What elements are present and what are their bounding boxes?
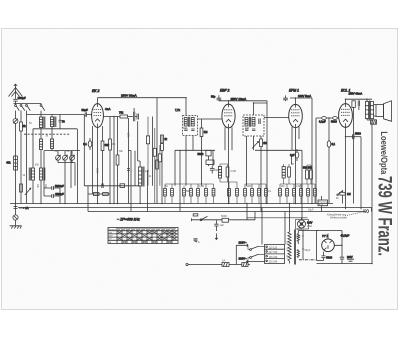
coil L7 IF tall [139, 167, 145, 187]
wire mains lower lead [246, 261, 265, 263]
resistor R8 [93, 193, 99, 196]
ballast bars [347, 256, 354, 261]
potentiometer P2 arrow [252, 142, 259, 149]
svg-text:739 W Franz.: 739 W Franz. [373, 176, 395, 256]
wire selector stubs [248, 245, 265, 261]
mains plug pins [247, 244, 248, 263]
svg-text:220V~: 220V~ [239, 241, 248, 245]
coil L1 [39, 117, 45, 129]
capacitor C20 [352, 100, 360, 203]
svg-text:1A: 1A [25, 206, 29, 210]
wire x147 drop [147, 170, 149, 212]
svg-text:100V 5mA: 100V 5mA [298, 94, 311, 98]
svg-text:1M: 1M [347, 192, 351, 196]
svg-text:468: 468 [183, 127, 188, 130]
wire x162 upper [161, 135, 163, 144]
svg-text:Bereich: Bereich [109, 228, 117, 231]
wire anode rail 4 [346, 99, 373, 104]
svg-text:600: 600 [35, 164, 40, 167]
wire lamp rail [247, 217, 308, 219]
wire x135 drop [134, 151, 136, 186]
wire x180 drop [179, 150, 181, 211]
resistor R7 [120, 184, 125, 188]
wire x312 drop [311, 98, 313, 204]
svg-text:4mA: 4mA [105, 107, 111, 111]
wire resistor bank drops [165, 182, 315, 204]
wire rail 150.3 right [255, 149, 302, 151]
trimmer pot P1 [13, 119, 18, 124]
wire C23 [328, 118, 330, 204]
wire x114 drop [113, 117, 115, 204]
chassis ground [10, 220, 22, 229]
wire x321 drop [321, 196, 323, 212]
resistor R12 [161, 144, 164, 151]
wire osc coil drops [33, 180, 41, 204]
coil L11 [252, 118, 255, 127]
resistor R6 [116, 155, 119, 165]
resistor R9 [103, 193, 109, 196]
resistor bank row above bus [164, 189, 317, 197]
tube V2 [222, 104, 235, 128]
fuse F1 [14, 204, 18, 215]
dial lamp [298, 218, 306, 228]
terminal arrow [215, 234, 218, 240]
svg-text:5000: 5000 [221, 214, 227, 218]
wire S2 drop [342, 190, 344, 203]
wire filter drop [134, 108, 140, 167]
resistor R25 mains b [242, 263, 248, 267]
resistor R20 [156, 160, 159, 169]
rectifier loop box [317, 231, 343, 261]
capacitor C17 [283, 98, 288, 100]
switch S1c [26, 105, 31, 111]
resistor R13 1M [260, 139, 267, 147]
svg-text:40µF: 40µF [295, 236, 301, 239]
svg-text:7,7k: 7,7k [175, 108, 181, 112]
wire bus hook right [371, 208, 373, 212]
capacitor C23 0,1 [327, 141, 335, 147]
capacitor C10 [191, 129, 194, 131]
svg-text:110 125: 110 125 [269, 246, 278, 249]
wire tone switch line [192, 219, 256, 221]
svg-text:150V 30mA: 150V 30mA [121, 94, 137, 98]
wire tone rail [346, 136, 362, 138]
capacitor C22 paper [331, 117, 337, 124]
IF transformer IFT2 shield box [243, 115, 264, 136]
wire anode rail 2 [219, 95, 267, 104]
wire mid rail 185.8 [84, 185, 140, 187]
pickup terminal TA1 [193, 214, 198, 216]
resistor R5 [109, 139, 112, 150]
svg-text:Loewe/Opta: Loewe/Opta [379, 131, 389, 175]
terminal mains [186, 263, 188, 265]
resistor R2 [6, 156, 17, 170]
svg-text:T.A.: T.A. [196, 241, 200, 244]
capacitor C19 1uF [290, 149, 299, 161]
switch S3 [192, 216, 208, 221]
svg-text:5000pF: 5000pF [55, 184, 64, 188]
wire V2 pins [225, 127, 232, 203]
resistor R21 [146, 136, 149, 144]
capacitor C28 [126, 133, 130, 171]
capacitor C12 [198, 150, 212, 156]
resistor R11 [161, 135, 168, 143]
wire rail C [33, 128, 77, 130]
bus line 2 [18, 207, 372, 209]
svg-text:5000: 5000 [326, 256, 332, 260]
TR1 secondary heater [297, 250, 299, 258]
trimmer T2 [63, 155, 68, 160]
TR1 tap labels [285, 241, 287, 259]
capacitor C25 [221, 214, 229, 222]
wire bank2 stubs [33, 129, 52, 168]
bus line 3 [88, 211, 366, 213]
wire rectifier output [334, 239, 342, 257]
capacitor C21 paper [319, 117, 326, 124]
coil L4 [50, 139, 53, 149]
capacitor C4 [44, 184, 64, 190]
node a [113, 116, 114, 117]
capacitor C8 [102, 184, 103, 189]
svg-text:2M: 2M [281, 185, 284, 188]
output transformer TR2 [365, 101, 373, 120]
wire band-switch top rail [14, 103, 42, 105]
coil L13 [282, 167, 285, 179]
IF transformer IFT1 shield box [183, 116, 198, 136]
resistor R18 [340, 192, 351, 196]
coil L2 [50, 117, 56, 128]
capacitor C18 [210, 166, 215, 174]
coil L5 oscillator [29, 168, 34, 181]
wire V4 cathode drop [345, 127, 347, 209]
svg-text:1µF: 1µF [219, 223, 224, 227]
wire x84 drop [83, 115, 85, 186]
wire V1 cathode drops [93, 126, 103, 204]
wire anode supply rail [98, 98, 187, 104]
wire C4 C5 drops [44, 151, 60, 204]
wire rail 150.3 [175, 149, 215, 151]
wire vertical x21 [20, 111, 22, 204]
wire x152 drop [152, 117, 154, 186]
wire R4 drop [102, 151, 104, 186]
svg-text:500pF: 500pF [18, 96, 26, 100]
table X marks [117, 231, 176, 243]
wire TR1 HT to rectifier [298, 231, 318, 245]
resistor R16 [306, 170, 309, 179]
svg-text:468: 468 [245, 127, 250, 130]
svg-text:5000: 5000 [355, 132, 361, 136]
coil L9 [191, 118, 194, 127]
tube V3 [289, 104, 303, 127]
speaker field coil [371, 120, 377, 124]
wire R13 [260, 136, 262, 212]
svg-text:110k: 110k [126, 133, 129, 139]
pickup terminal TA2 [194, 239, 198, 242]
dotted pointer line [345, 212, 363, 216]
svg-text:0,1: 0,1 [83, 142, 87, 146]
capacitor C25b 1uF [214, 220, 224, 231]
resistor R1 [20, 122, 27, 131]
wire x157 drop [156, 98, 158, 204]
connector jack [364, 209, 369, 213]
wire x124 drop [128, 118, 130, 204]
wire heater dashdot [299, 259, 317, 261]
resistor R17 [310, 170, 313, 179]
power transformer TR1 core [295, 230, 296, 265]
capacitor C16 [252, 129, 255, 131]
wire x77.5 drop [77, 129, 79, 204]
svg-text:6,3V: 6,3V [307, 221, 313, 225]
wire x88 drop [88, 186, 93, 212]
svg-text:1M: 1M [204, 130, 208, 134]
trimmer T3 [70, 155, 75, 160]
wire V4 grid [316, 117, 339, 119]
resistor R3 [119, 110, 128, 118]
svg-text:0,1: 0,1 [332, 142, 336, 146]
wire coil bank stubs [41, 111, 60, 129]
table row labels [109, 228, 117, 244]
svg-text:5000: 5000 [215, 169, 221, 172]
svg-text:10µF: 10µF [308, 209, 314, 212]
capacitor C26 electrolytic [340, 257, 344, 263]
svg-text:127 150: 127 150 [269, 251, 278, 254]
wire mains riser [236, 245, 248, 264]
svg-text:50p: 50p [211, 95, 216, 99]
bracket V3 [291, 156, 293, 164]
main ground bus [10, 203, 333, 205]
wire grid rail to tube1 [27, 114, 85, 116]
wire mains lead [188, 264, 250, 266]
svg-text:5000: 5000 [331, 120, 337, 124]
coil L3 [39, 139, 42, 150]
wire x267 drop [266, 101, 268, 204]
header marks table [118, 229, 176, 230]
svg-text:1M: 1M [263, 141, 267, 145]
capacitor C24 tone [353, 132, 362, 140]
resistor R23 [158, 154, 161, 162]
wire vertical x26.5 [26, 111, 28, 204]
wire cascade drops [148, 117, 160, 204]
wire L13 R15 stubs [284, 164, 289, 184]
coil L12 [218, 167, 221, 179]
svg-text:5000: 5000 [246, 185, 252, 188]
resistor bank hatch [164, 190, 317, 194]
label Klangblende [327, 212, 347, 219]
svg-text:0,5M: 0,5M [231, 170, 236, 173]
alignment table [108, 228, 178, 244]
svg-text:220V~: 220V~ [239, 257, 248, 261]
svg-text:0,1µF: 0,1µF [143, 170, 150, 173]
wire rail 194 [88, 193, 110, 195]
wire R3 to filter [128, 116, 133, 118]
lamp box [296, 220, 309, 230]
svg-text:EFM 1: EFM 1 [289, 89, 299, 93]
svg-text:0,2M: 0,2M [199, 185, 204, 188]
svg-text:2A: 2A [222, 258, 225, 262]
svg-text:0,3M: 0,3M [296, 185, 301, 188]
coil L6 oscillator [39, 168, 45, 181]
selector voltage texts [269, 246, 278, 263]
capacitor C9 [184, 129, 187, 131]
wire upper tie rail left [165, 183, 214, 185]
wire R6 bottom [117, 165, 119, 204]
capacitor C13 [206, 160, 214, 164]
TR1 primary winding [288, 232, 291, 261]
wire IFT2 feeds [247, 103, 289, 186]
capacitor C11 50pF [211, 95, 221, 100]
resistor R22 [153, 148, 156, 156]
wire upper tie rail right [245, 183, 315, 185]
switch S2 [337, 190, 343, 195]
wire x162 drop [161, 151, 163, 204]
capacitor C1 antenna 500pF [13, 96, 26, 101]
tube V4 [339, 104, 353, 128]
switch S4a voltage selector [250, 246, 259, 250]
svg-text:~ ZF=468 kHz: ~ ZF=468 kHz [117, 218, 140, 222]
wire x372 drop [371, 120, 373, 264]
capacitor C5 [44, 192, 64, 198]
switch S1d [40, 105, 45, 111]
svg-text:0,1µF: 0,1µF [319, 120, 326, 124]
svg-text:40,5µF: 40,5µF [341, 234, 350, 238]
wire rail D [44, 150, 80, 152]
wire C12 C13 [175, 145, 232, 186]
switch S1a [15, 105, 20, 111]
switch S4b voltage selector [250, 254, 259, 258]
wire rectifier bottom [317, 260, 324, 262]
svg-text:1µF: 1µF [290, 153, 295, 157]
resistor R14 [226, 167, 229, 177]
svg-text:VY 2: VY 2 [322, 234, 328, 238]
svg-text:0,3A: 0,3A [307, 225, 312, 228]
resistor R10 1M [200, 128, 207, 137]
switch S1b [20, 105, 25, 111]
svg-text:EK 2: EK 2 [92, 89, 99, 93]
resistor R19 wavy [222, 258, 229, 266]
capacitor C27 [321, 252, 332, 261]
antenna [9, 84, 23, 99]
wire anode rail 3 [286, 95, 313, 104]
wire x361 drop [360, 137, 362, 210]
capacitor C2 50pF [82, 108, 92, 117]
capacitor C6 pair [133, 112, 138, 121]
svg-text:5000: 5000 [198, 152, 204, 156]
wire R5 drops [109, 117, 111, 204]
wire R10 [201, 119, 203, 186]
svg-text:220 240: 220 240 [269, 261, 278, 264]
IFT2 core [249, 117, 250, 127]
wire IFT1 feeds [186, 98, 222, 186]
svg-text:EBF 2: EBF 2 [220, 89, 229, 93]
TR1 secondary HT [297, 234, 299, 242]
voltage selector block [265, 245, 285, 264]
resistor R15 [288, 167, 291, 177]
svg-text:75k: 75k [119, 110, 124, 114]
wire x117 drop [117, 117, 119, 156]
svg-text:204V: 204V [347, 256, 353, 259]
capacitor C7 0,1uF [83, 138, 92, 150]
IFT1 core [189, 117, 190, 127]
label 1A with arrow [19, 206, 29, 210]
wire vertical x15.5 [15, 111, 17, 204]
wire OT to speaker [374, 105, 376, 117]
wire x303 drop rectifier [302, 230, 304, 260]
mains switch knob [13, 215, 18, 220]
wire L12 R14 stubs [220, 164, 237, 182]
wire antenna lead down [15, 101, 17, 104]
node dot 303a [302, 235, 303, 236]
svg-text:Wellenschalter: Wellenschalter [330, 216, 347, 220]
rectifier tube V5 [322, 234, 335, 252]
wire x71 drop [70, 151, 72, 188]
capacitor C14 [259, 119, 260, 125]
wire x247 link [247, 204, 255, 220]
svg-text:50k 50k: 50k 50k [303, 166, 313, 170]
svg-text:6,3V: 6,3V [297, 228, 302, 231]
svg-text:150V 10mA: 150V 10mA [231, 97, 247, 101]
wire TR1 primary feeds [262, 204, 290, 264]
resistor R24 [20, 184, 23, 192]
wire bottom supply rail [317, 263, 373, 265]
svg-text:250V 40mA: 250V 40mA [349, 92, 363, 96]
trimmer T1 [56, 155, 61, 160]
wire OT top feed [367, 99, 372, 120]
svg-text:50pF: 50pF [82, 108, 89, 112]
coil L8 [184, 118, 187, 127]
capacitor C15 [245, 129, 248, 131]
node dot 303b [302, 248, 303, 249]
wire x316 drop [315, 118, 317, 204]
wire x131 drop [128, 151, 131, 212]
wire R16 R17 stubs [307, 165, 311, 184]
box regulator label [318, 200, 328, 206]
loudspeaker [376, 101, 392, 122]
wire trimmer bottoms [58, 151, 75, 204]
svg-text:145 220: 145 220 [269, 256, 278, 259]
tube V1 [92, 104, 104, 128]
svg-text:50µF: 50µF [305, 249, 311, 252]
wire x302 drop [301, 150, 303, 220]
capacitor C3 [59, 119, 66, 123]
svg-text:100k: 100k [95, 168, 98, 174]
scan noise overlay [0, 0, 1, 1]
wire V1 anode to R3 [103, 116, 120, 118]
wire V3 pins [292, 127, 299, 204]
svg-text:40k: 40k [6, 161, 11, 165]
coil L10 [245, 118, 248, 127]
resistor R4 [101, 141, 109, 151]
potentiometer arrow P3 [25, 188, 31, 195]
svg-text:4000pF: 4000pF [55, 192, 64, 196]
wire gang link dashed [24, 133, 70, 135]
wire L7 bottom [139, 186, 141, 204]
